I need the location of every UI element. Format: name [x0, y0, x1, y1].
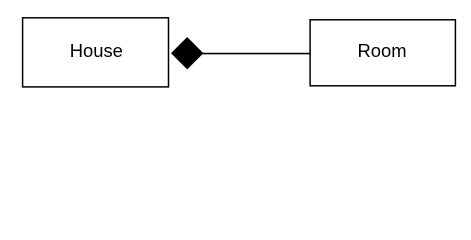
composition diamond [172, 38, 203, 69]
svg-text:House: House [70, 40, 123, 61]
class box Room [310, 20, 455, 86]
svg-text:Room: Room [357, 40, 406, 61]
class box House [23, 18, 169, 87]
wire association line [196, 53, 311, 55]
